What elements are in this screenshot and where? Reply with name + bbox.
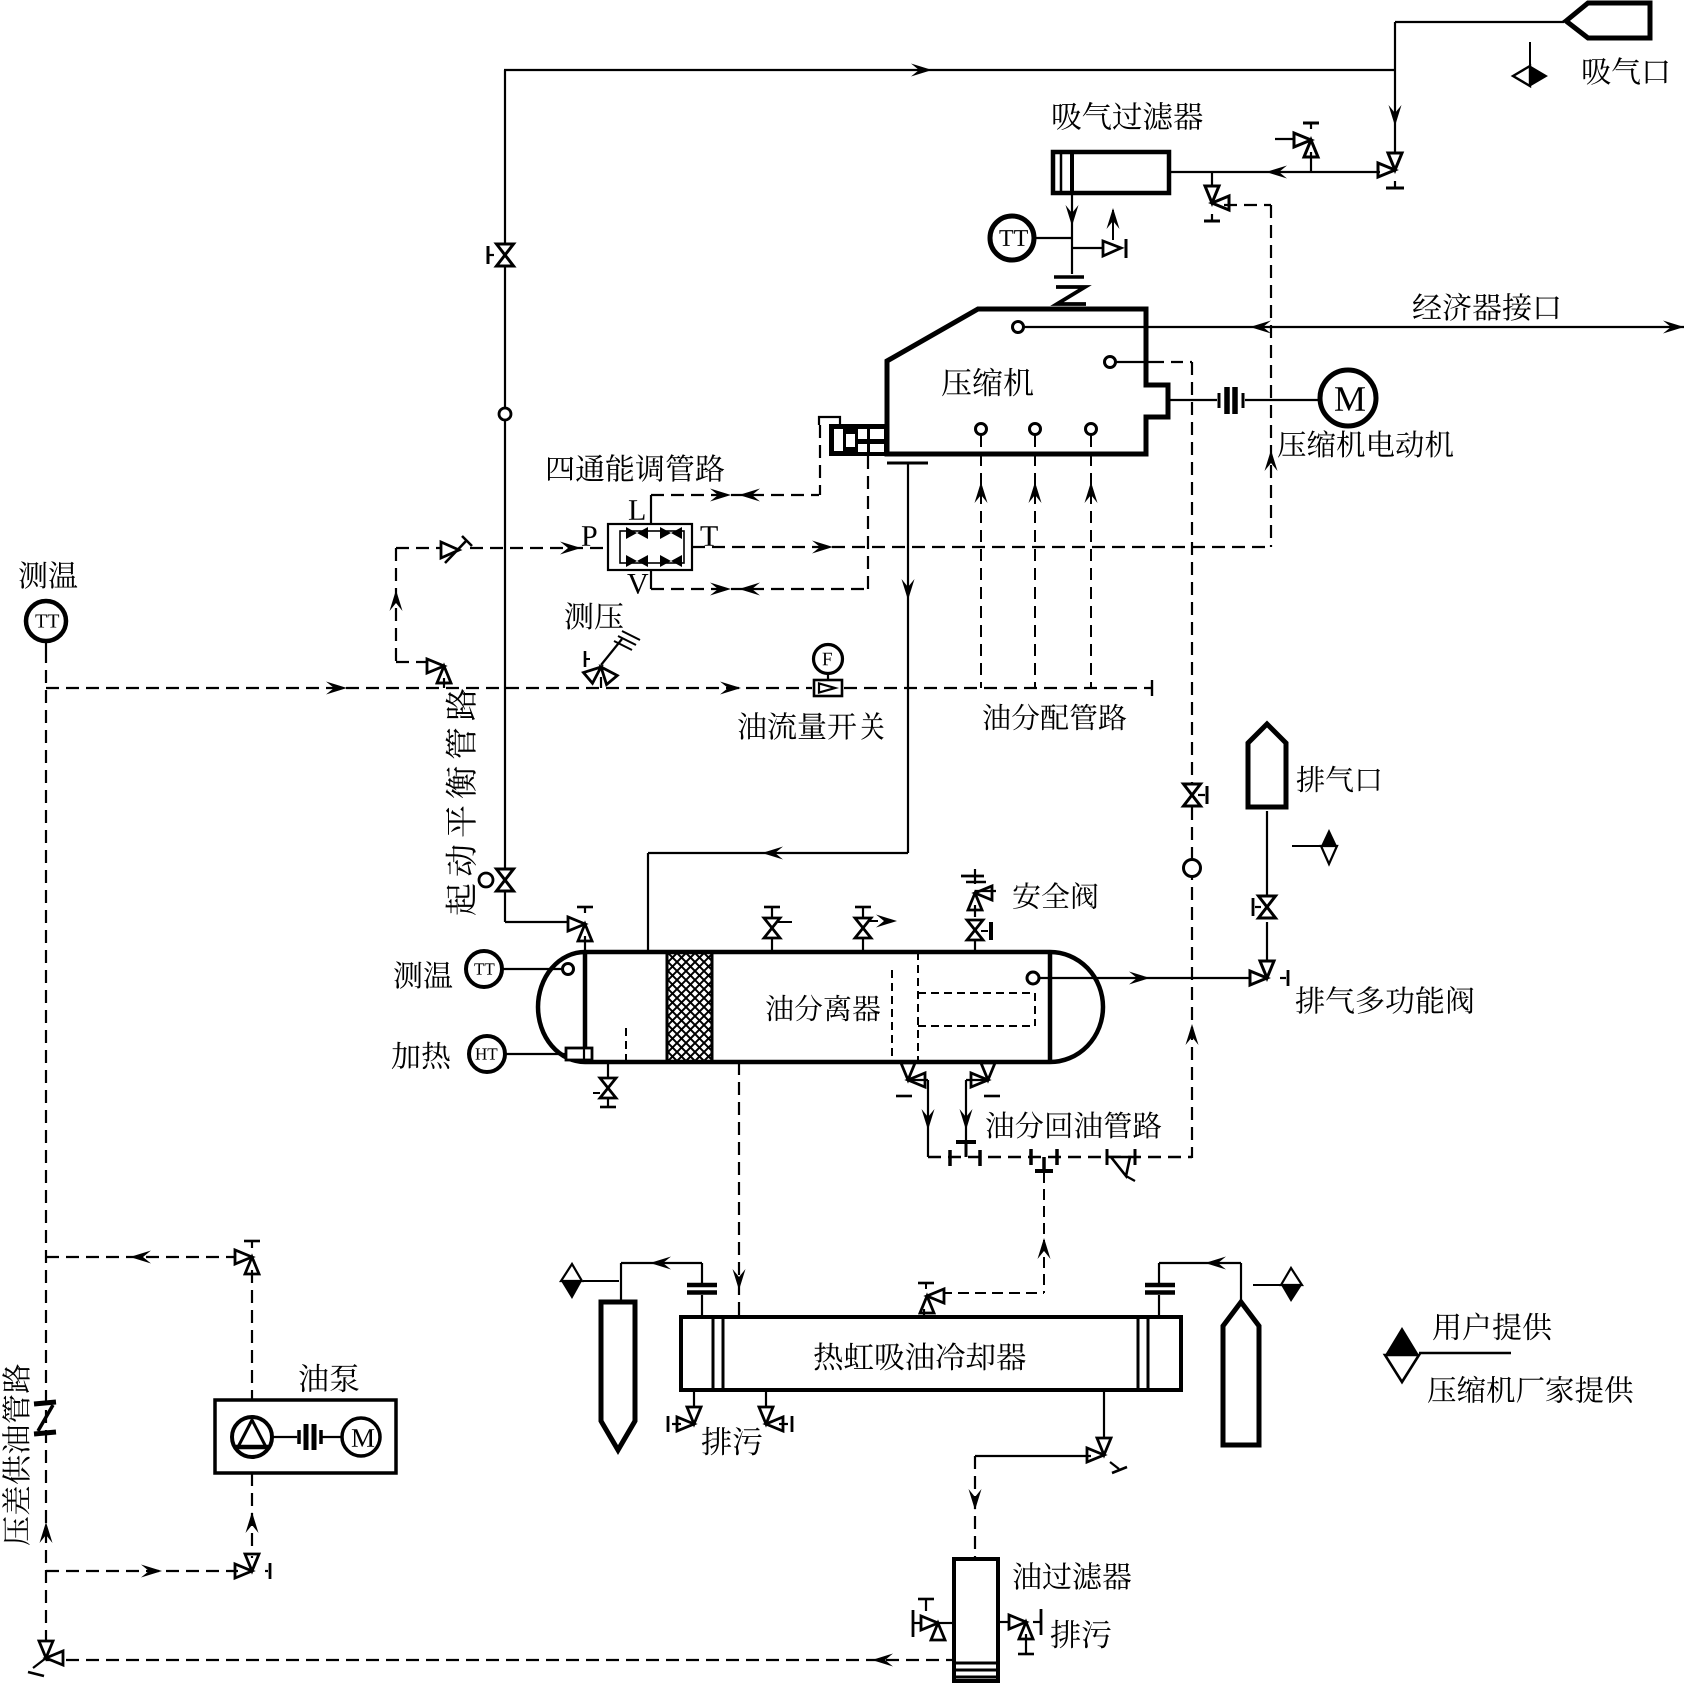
- motor: pump motor M: [342, 1418, 380, 1456]
- label TT2: [35, 615, 59, 628]
- pipe: balance into separator: [505, 921, 570, 923]
- valve: start-balance stop valve upper: [497, 244, 514, 266]
- label: 压缩机: [942, 368, 1033, 397]
- valve: filter inlet-side service valve: [938, 1622, 954, 1624]
- instrument: oil flow switch with F: [814, 645, 843, 674]
- pipes: oil injection dashed feeds: [980, 435, 982, 688]
- label: 排气多功能阀: [1296, 986, 1474, 1014]
- arrow on suction header: [911, 64, 932, 77]
- pipe: flag to suction drop: [1395, 21, 1564, 23]
- pump: rotary pump symbol: [232, 1417, 272, 1457]
- pipe: economizer line (经济器接口): [1024, 326, 1684, 328]
- fitting: return tee with cap: [1029, 1149, 1033, 1165]
- label: 油泵: [299, 1364, 359, 1392]
- pipe: pump suction feed dashed: [46, 1570, 238, 1572]
- valve: start balance lower valve with actuator circle: [497, 869, 514, 891]
- label TT: [999, 230, 1028, 246]
- pipe: separator discharge line: [1027, 972, 1039, 984]
- node: balance line test point circle: [499, 408, 511, 420]
- pipe: suction line to filter: [1169, 171, 1380, 173]
- pipe: oil pressure branch dashed: [395, 548, 397, 662]
- label: 排气口: [1297, 766, 1380, 793]
- valves: four-way internal bowties: [626, 527, 637, 539]
- component: separator internal dashed details: [625, 1028, 627, 1062]
- vessel: left refrigerant drop leg: [601, 1302, 635, 1450]
- label: 用户提供: [1433, 1313, 1551, 1341]
- equipment: oil pump unit box: [215, 1400, 396, 1473]
- valve: bottom left corner valve: [39, 1641, 63, 1665]
- pipe: oil supply bottom dashed run: [46, 1659, 954, 1661]
- label: 起动平衡管路: [446, 689, 477, 915]
- marker: supplier diamond at right supply leg: [1253, 1284, 1281, 1286]
- pipe: start-balance line vertical: [504, 70, 506, 244]
- label: 吸气口: [1583, 57, 1668, 85]
- equipment: compressor body (压缩机): [887, 309, 1168, 454]
- vessel: suction filter (吸气过滤器): [1053, 152, 1169, 193]
- component: heater element: [566, 1048, 592, 1060]
- valve: stop valve on oil return dashed line: [1184, 784, 1201, 806]
- pipe: main oil supply dashed line: [45, 650, 47, 1658]
- component: slide valve indicator block: [829, 424, 889, 456]
- pipe: P port dashed supply: [470, 547, 608, 549]
- label HT: [476, 1048, 498, 1059]
- fitting: flexible joint Z at compressor suction: [1054, 275, 1084, 279]
- label: 排污 cooler: [702, 1427, 762, 1455]
- valve: oil supply branch valve: [427, 659, 451, 683]
- motor: compressor motor M (压缩机电动机): [1320, 370, 1376, 426]
- valve: discharge stop valve: [1259, 896, 1276, 918]
- valve: main suction angle valve: [1378, 153, 1402, 177]
- pipe: pump branch upper dashed: [46, 1256, 238, 1258]
- valve: charge valve above suction line: [1275, 138, 1295, 140]
- pipe: cooler right refrigerant riser: [1158, 1295, 1160, 1317]
- valve: drain funnel on return manifold: [1106, 1149, 1109, 1165]
- node: sight glass on oil return line: [1184, 860, 1201, 877]
- label F: [823, 653, 832, 665]
- valve: vent service valve: [1072, 247, 1103, 249]
- label T: [701, 526, 718, 546]
- valve: separator left drain: [607, 1062, 609, 1077]
- fitting: union on oil supply line: [34, 1402, 56, 1404]
- vessel: oil filter (油过滤器): [954, 1559, 998, 1681]
- pipe: oil return manifold dashed (油分回油管路): [928, 1156, 1192, 1158]
- pipe: separator to cooler dashed feed: [738, 1062, 740, 1317]
- label M motor: [1335, 387, 1365, 411]
- label L: [629, 500, 645, 520]
- label P: [582, 526, 597, 546]
- label: 测温 separator: [394, 961, 452, 988]
- pipe: suction drop vertical: [1394, 22, 1396, 156]
- pipe: compressor discharge drop: [907, 463, 909, 853]
- label: 油过滤器: [1013, 1562, 1131, 1590]
- pipe: filter outlet drop: [1071, 193, 1073, 274]
- label: 加热: [392, 1042, 450, 1070]
- valve: separator top service valve 1: [764, 906, 780, 909]
- fitting: compressor discharge tee bar: [887, 462, 928, 465]
- valve: discharge multifunction valve (排气多功能阀): [1250, 961, 1274, 985]
- shaft: compressor to motor coupling: [1168, 399, 1217, 401]
- nodes: compressor oil injection ports: [976, 424, 987, 435]
- valve: separator top service valve 2 with vent: [855, 906, 871, 909]
- label: 排污 filter: [1051, 1620, 1111, 1648]
- vessel: right refrigerant supply leg: [1223, 1302, 1259, 1445]
- valve: cooler drain left: [693, 1390, 695, 1411]
- component: slide valve step outline: [819, 417, 840, 425]
- valve: safety relief valve (安全阀): [974, 869, 976, 884]
- valve: pump discharge valve: [235, 1250, 259, 1274]
- valve: cooler drain right: [765, 1390, 767, 1411]
- valve: separator oil drain B: [987, 1062, 989, 1068]
- pipe: bypass dashed to economizer loop: [1224, 204, 1271, 206]
- valve: cooler oil return valve: [920, 1289, 944, 1313]
- label: 压缩机厂家提供: [1428, 1376, 1633, 1403]
- marker: supplier split diamond at suction: [1529, 42, 1531, 66]
- fitting: capped purge tee: [956, 1140, 976, 1144]
- instrument: TT at filter outlet: [990, 216, 1034, 260]
- label: 油流量开关: [738, 712, 884, 740]
- pipe: T port dashed to economizer riser: [692, 546, 1271, 548]
- pipe: V port dashed to slide indicator: [650, 570, 652, 589]
- node: compressor oil return port: [1105, 357, 1116, 368]
- marker: supplier diamond near discharge: [1292, 845, 1321, 847]
- flag: discharge port (排气口): [1248, 724, 1286, 807]
- valve: filter drain (排污): [998, 1621, 1012, 1623]
- label: 测压: [565, 602, 623, 629]
- label V: [627, 574, 648, 594]
- shaft: pump coupling: [272, 1436, 297, 1438]
- valve: P supply check valve: [441, 542, 459, 558]
- label: 油分配管路: [983, 704, 1126, 731]
- legend: supplier marker: [1385, 1327, 1419, 1355]
- marker: supplier diamond at left drop leg: [583, 1280, 619, 1282]
- flag: suction port (吸气口): [1566, 3, 1650, 38]
- label: 油分回油管路: [986, 1112, 1161, 1139]
- label TT3: [474, 963, 494, 974]
- label: 安全阀: [1013, 882, 1097, 909]
- valve: separator inlet balance angle valve: [568, 917, 592, 941]
- valve: separator oil drain A: [907, 1062, 909, 1068]
- vessel: oil separator shell (油分离器): [538, 952, 1103, 1062]
- label: 四通能调管路: [548, 454, 724, 482]
- label: 压缩机电动机: [1278, 430, 1453, 457]
- label: 测温 top-left: [19, 561, 77, 588]
- pipe: pump suction dashed: [251, 1473, 253, 1556]
- pipe: cooler left refrigerant riser: [701, 1295, 703, 1317]
- pipe: cooler oil return riser dashed: [1043, 1172, 1045, 1293]
- label: 热虹吸油冷却器: [814, 1342, 1025, 1370]
- label: 油分离器: [766, 995, 880, 1022]
- valve: pump suction valve: [235, 1554, 259, 1578]
- pipe: cooler oil outlet: [1103, 1390, 1105, 1441]
- valve: gauge valve with test connection: [583, 657, 617, 691]
- label: 压差供油管路: [2, 1364, 30, 1545]
- pipe: suction header top: [504, 69, 1395, 71]
- valve: cooler outlet valve: [1087, 1438, 1111, 1462]
- component: separator demister hatch section: [666, 952, 669, 1062]
- vessel: thermosiphon oil cooler (热虹吸油冷却器): [681, 1317, 1181, 1390]
- label M pump: [352, 1429, 374, 1447]
- label: 吸气过滤器: [1053, 102, 1202, 130]
- label: 经济器接口: [1413, 293, 1559, 321]
- node: separator temperature port: [563, 964, 574, 975]
- valve: filter bypass angle valve: [1211, 172, 1213, 190]
- pipe: port to oil return dashed drop: [1116, 361, 1152, 363]
- pipe: L port dashed to slide indicator: [650, 495, 652, 524]
- node: compressor economizer port: [1013, 322, 1024, 333]
- pipe: pump discharge dashed: [251, 1270, 253, 1400]
- component: four-way valve manifold box: [608, 524, 692, 570]
